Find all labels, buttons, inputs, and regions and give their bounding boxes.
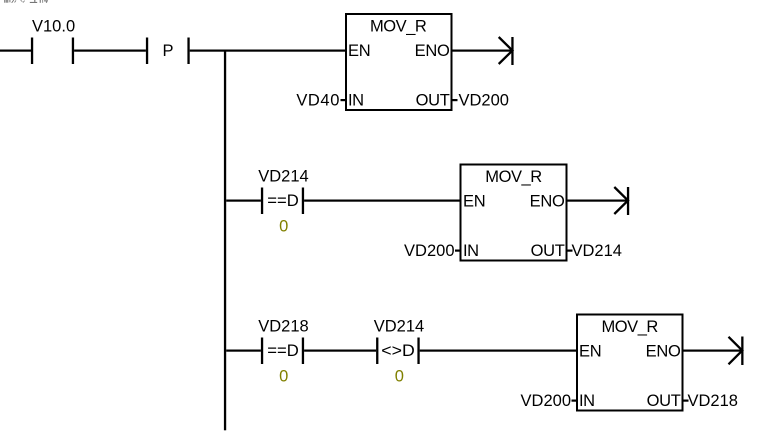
svg-text:==D: ==D (267, 342, 299, 360)
svg-text:==D: ==D (267, 192, 299, 210)
wire: contact V10.0 to contact P (74, 50, 146, 52)
svg-text:<>D: <>D (381, 342, 415, 360)
svg-text:VD200: VD200 (521, 392, 571, 410)
block U1 MOV_R (346, 14, 452, 110)
svg-text:0: 0 (279, 218, 288, 236)
svg-text:OUT: OUT (647, 392, 681, 410)
pin IN (block 2) (455, 250, 461, 252)
wire: contact to block 2 EN (304, 200, 460, 202)
svg-text:VD200: VD200 (404, 242, 454, 260)
wire: contact 1 to contact 2 (304, 350, 376, 352)
svg-text:V10.0: V10.0 (32, 17, 75, 35)
contact V10.0 (normally open) (31, 38, 33, 65)
svg-text:VD214: VD214 (258, 167, 308, 185)
arrow: rung 1 open line end (499, 37, 513, 64)
svg-text:VD218: VD218 (258, 317, 308, 335)
pin OUT (block 1) (452, 99, 458, 101)
svg-text:IN: IN (579, 392, 595, 410)
contact ==D compare (VD214) (261, 188, 263, 215)
svg-text:VD200: VD200 (459, 91, 509, 109)
svg-text:VD218: VD218 (688, 392, 738, 410)
junction: branch rail drop (224, 50, 226, 431)
svg-text:ENO: ENO (415, 42, 450, 60)
svg-text:VD214: VD214 (374, 317, 424, 335)
svg-text:OUT: OUT (531, 242, 565, 260)
pin IN (block 1) (341, 99, 347, 101)
svg-text:IN: IN (348, 91, 364, 109)
arrow: rung 2 open line end (614, 187, 628, 214)
wire: contact 2 to block 3 EN (420, 350, 577, 352)
network comment text (clipped, gray) (4, 0, 48, 3)
pin IN (block 3) (572, 400, 578, 402)
wire: rail to compare contact VD214 (226, 200, 261, 202)
wire: contact P to block 1 EN (190, 50, 347, 52)
svg-text:0: 0 (279, 368, 288, 386)
svg-text:P: P (162, 42, 173, 60)
svg-text:MOV_R: MOV_R (370, 17, 427, 35)
svg-text:0: 0 (395, 368, 404, 386)
block U2 MOV_R (461, 165, 567, 261)
svg-text:VD40: VD40 (296, 91, 340, 109)
svg-text:ENO: ENO (530, 192, 565, 210)
svg-text:EN: EN (579, 342, 601, 360)
wire: left entry to contact V10.0 (0, 50, 31, 52)
contact P (positive edge) (146, 38, 148, 65)
contact <>D compare (VD214) (376, 338, 378, 365)
wire: rail to compare contact VD218 (226, 350, 261, 352)
pin OUT (block 2) (567, 250, 573, 252)
wire: block 3 ENO to arrow (683, 350, 743, 352)
svg-text:VD214: VD214 (572, 242, 622, 260)
contact ==D compare (VD218) (261, 338, 263, 365)
pin OUT (block 3) (683, 400, 689, 402)
svg-text:OUT: OUT (416, 91, 450, 109)
svg-text:MOV_R: MOV_R (485, 168, 542, 186)
svg-text:EN: EN (463, 192, 485, 210)
wire: block 1 ENO to arrow (452, 50, 513, 52)
svg-text:ENO: ENO (646, 342, 681, 360)
svg-text:MOV_R: MOV_R (601, 318, 658, 336)
block U3 MOV_R (577, 315, 683, 411)
svg-text:IN: IN (463, 242, 479, 260)
wire: block 2 ENO to arrow (567, 200, 629, 202)
svg-text:EN: EN (348, 42, 370, 60)
arrow: rung 3 open line end (729, 337, 743, 365)
